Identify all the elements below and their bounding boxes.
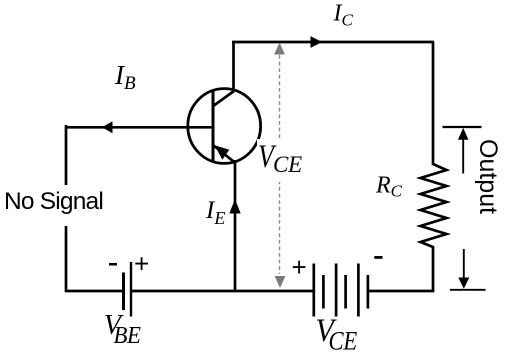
output dimension up arrowhead	[458, 128, 469, 140]
dashed VCE measurement line	[279, 55, 281, 274]
arrow: emitter current IE pointing up	[229, 199, 240, 214]
battery VCE plate long 1	[312, 264, 315, 317]
output dimension down arrow line	[463, 249, 465, 279]
wire: left vertical (base return)	[65, 125, 68, 292]
svg-text:CE: CE	[329, 327, 358, 352]
wire: emitter vertical down to bottom rail	[234, 160, 237, 292]
transistor Q1 circle	[188, 89, 261, 164]
gray arrowhead up	[274, 43, 285, 55]
arrow: collector current IC pointing right	[311, 36, 323, 48]
transistor Q1 emitter diagonal	[213, 145, 236, 163]
label VBE	[104, 310, 141, 350]
gray arrowhead down	[275, 276, 286, 288]
resistor RC zigzag	[421, 164, 447, 247]
output dimension down arrowhead	[458, 278, 469, 289]
svg-text:+: +	[134, 249, 149, 279]
label battery VBE minus	[109, 263, 117, 266]
wire: right vertical from top rail to resistor	[432, 42, 435, 165]
battery VBE negative plate (short)	[122, 273, 125, 311]
wire: resistor bottom to ground rail	[432, 246, 435, 292]
wire: bottom rail right segment	[368, 290, 434, 293]
wire: bottom rail left segment	[65, 290, 123, 293]
wire: top collector rail	[232, 41, 434, 44]
battery VCE plate long 2	[335, 264, 338, 317]
battery VCE plate long 3	[357, 264, 360, 317]
svg-text:BE: BE	[114, 322, 141, 349]
wire: bottom rail middle segment	[131, 290, 314, 293]
label background: VCE middle	[257, 139, 304, 182]
output dimension up arrow line	[462, 136, 464, 174]
battery VBE positive plate (long)	[130, 262, 132, 317]
label VCE middle	[258, 139, 302, 177]
output dimension bottom bar	[450, 289, 486, 291]
transistor Q1 collector diagonal	[213, 91, 235, 107]
transistor Q1 emitter arrowhead (points to base)	[215, 145, 230, 160]
svg-text:CE: CE	[273, 152, 302, 177]
battery VCE plate short 2	[344, 275, 347, 309]
label VCE bottom	[316, 312, 358, 352]
wire: collector vertical from transistor to top rail	[232, 42, 235, 91]
arrow: base current IB pointing left	[102, 121, 113, 133]
output dimension top bar	[443, 126, 482, 128]
label background: No Signal	[2, 185, 104, 226]
wire: base wire horizontal	[65, 126, 212, 129]
svg-text:No Signal: No Signal	[4, 188, 103, 215]
battery VCE plate short 3	[367, 275, 370, 309]
battery VCE plate short 1	[322, 275, 325, 309]
label battery VCE minus	[374, 256, 382, 259]
svg-text:Output: Output	[474, 139, 502, 214]
svg-text:+: +	[292, 252, 307, 282]
transistor Q1 base bar	[212, 91, 215, 162]
